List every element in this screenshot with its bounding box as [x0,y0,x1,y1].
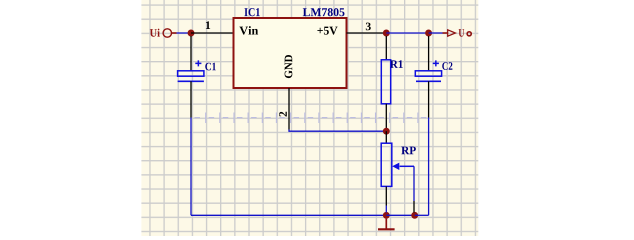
potentiometer RP body [381,143,392,186]
wire C1 down left rail [190,118,192,216]
junction node E [411,212,418,219]
RP bottom lead blue [385,206,387,213]
junction node C [425,30,432,37]
capacitor C2 top lead [428,36,430,71]
pin number 3 [366,23,371,31]
capacitor C1 bottom lead [190,81,192,117]
designator C1 [205,63,216,71]
port Uo [443,29,472,37]
capacitor C1 [178,60,204,81]
wire C2 down to rail [428,118,430,216]
pin 1 wire [191,32,234,34]
value LM7805 [303,8,345,16]
resistor R1 [381,60,390,104]
pin number 1 [206,21,210,29]
wire GND pin to node F [289,130,386,132]
capacitor C2 bottom lead [428,81,430,117]
pin label +5V [317,27,337,35]
wire node F to RP [385,131,387,143]
designator R1 [390,60,403,68]
port Ui [150,29,177,38]
designator RP [401,147,416,155]
junction node D [383,212,390,219]
wire node B to node C [386,32,428,34]
junction node B [383,30,390,37]
wire node E to C2 column [415,214,429,216]
designator IC1 [244,8,259,16]
regulator IC1 LM7805 body [234,18,347,88]
wire bottom rail [191,214,386,216]
wire RP wiper to node E [413,166,415,201]
capacitor C2 [415,60,441,81]
designator C2 [442,62,452,70]
resistor R1 bottom lead [385,104,387,131]
guide dashed line [193,113,430,124]
pin label Vin [239,26,258,35]
junction node F [383,128,390,135]
ground [378,219,395,230]
RP wiper lead black [413,201,415,213]
wire node C to port Uo [429,32,443,34]
potentiometer RP wiper [392,163,414,170]
RP bottom lead black [385,187,387,206]
pin label GND [285,55,293,78]
wire node D to node E [386,214,414,216]
resistor R1 top lead [385,36,387,60]
wire Ui to node A [177,32,192,34]
junction node A [188,30,195,37]
capacitor C1 top lead [190,36,192,71]
pin number 2 [279,112,287,117]
pin 3 wire [347,32,387,34]
pin 2 wire [288,88,290,130]
